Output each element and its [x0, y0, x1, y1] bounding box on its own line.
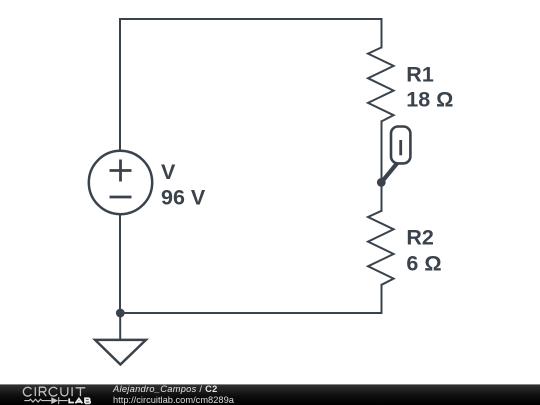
wire left top (node from V+ to top) [119, 19, 121, 150]
wire top horizontal [120, 18, 382, 20]
resistor R2 [368, 211, 394, 285]
svg-text:18 Ω: 18 Ω [406, 88, 453, 112]
logo LAB lettering [69, 398, 90, 403]
voltage source V plus sign [110, 160, 132, 182]
resistor R1 [368, 47, 394, 121]
svg-text:http://circuitlab.com/cm8289a: http://circuitlab.com/cm8289a [113, 395, 235, 405]
wire left bottom (V- to ground node) [119, 215, 121, 313]
svg-text:R1: R1 [406, 62, 434, 86]
svg-text:6 Ω: 6 Ω [406, 251, 441, 275]
switch SW1 toggle bar [399, 140, 402, 155]
logo CIRCUIT lettering [23, 387, 85, 396]
wire R2 to bottom [381, 285, 383, 313]
wire switch to R2 [381, 182, 383, 210]
ground stem wire [119, 313, 121, 339]
wire right top (top node to R1) [381, 19, 383, 47]
switch SW1 pivot dot [377, 178, 386, 187]
junction node dot (ground node) [116, 309, 125, 318]
logo zigzag and diode [24, 397, 67, 404]
svg-text:Alejandro_Campos / C2: Alejandro_Campos / C2 [112, 384, 218, 394]
wire bottom horizontal [120, 312, 382, 314]
ground symbol [95, 340, 146, 365]
switch SW1 lever [381, 161, 399, 182]
svg-text:R2: R2 [406, 226, 434, 250]
voltage source V body circle [89, 151, 152, 214]
voltage source V minus sign [110, 196, 132, 199]
svg-text:96 V: 96 V [161, 186, 206, 210]
voltage source V [89, 151, 152, 214]
switch SW1 toggle body [391, 127, 410, 164]
logo diode triangle [51, 397, 58, 404]
wire R1 to switch [381, 121, 383, 182]
svg-text:V: V [161, 160, 176, 184]
